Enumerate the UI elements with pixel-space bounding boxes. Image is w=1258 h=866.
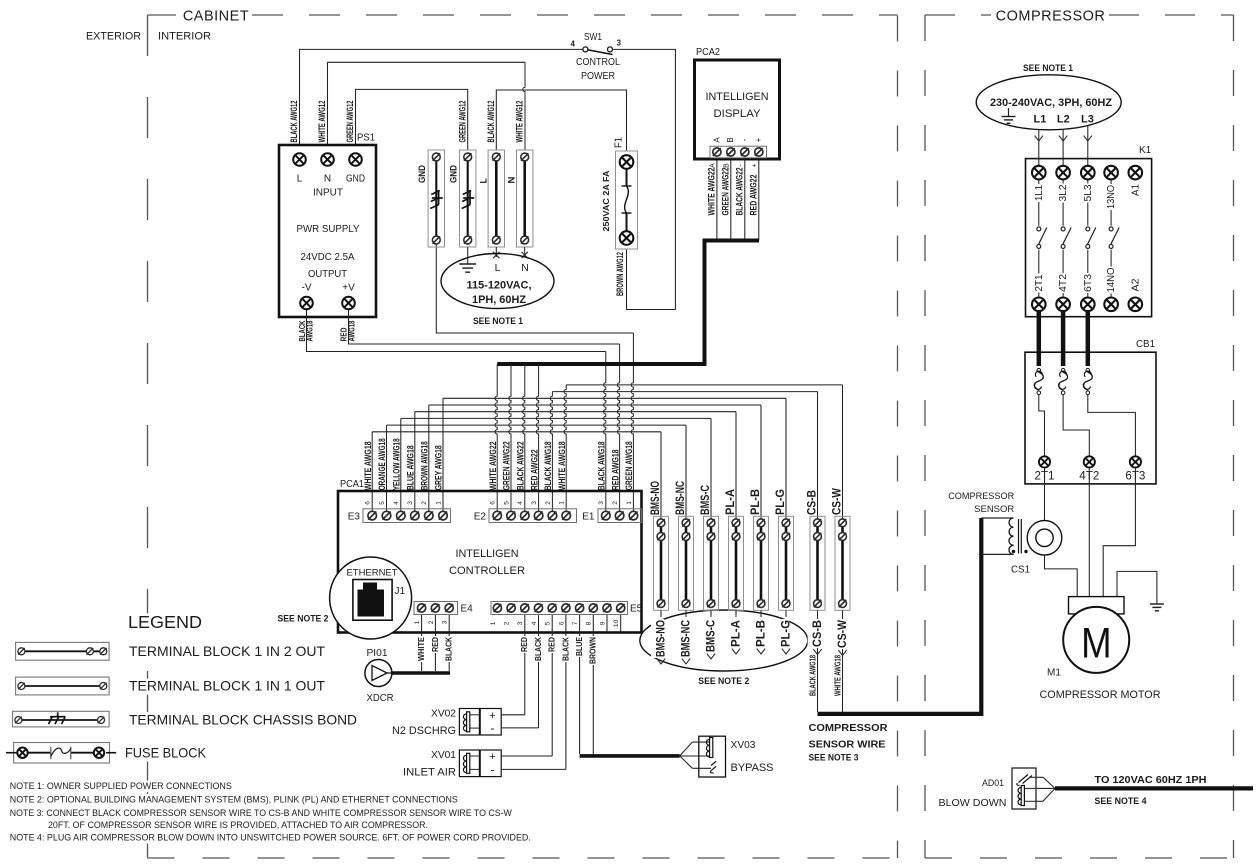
label PL-B above <box>750 489 762 515</box>
svg-text:BMS-NC: BMS-NC <box>680 620 692 657</box>
terminal strip E2 <box>489 509 577 523</box>
svg-text:BLACK: BLACK <box>445 637 454 661</box>
label BMS-NC above <box>675 481 687 515</box>
ground symbol under GND2 <box>459 264 476 272</box>
svg-text:E3: E3 <box>348 512 361 523</box>
wire label BLACK AWG18 at PS1 -V <box>298 320 307 341</box>
terminal 2T1 of K1 <box>1032 298 1046 312</box>
svg-text:B: B <box>723 163 730 168</box>
svg-text:GND: GND <box>448 165 458 183</box>
terminal 6T3 of CB1 <box>1130 456 1141 467</box>
svg-text:SEE NOTE 2: SEE NOTE 2 <box>698 676 749 687</box>
wire element 2 to terminal 4T2 of CB1 <box>1063 395 1089 457</box>
legend terminal block 1 in 2 out <box>16 642 110 660</box>
svg-text:GREY AWG18: GREY AWG18 <box>434 445 444 490</box>
wire harness row E3-5 to BMS-NC (ORANGE AWG18) <box>387 424 687 426</box>
pin labels A B - + of PCA2 <box>712 137 721 143</box>
svg-text:BLACK AWG22: BLACK AWG22 <box>734 168 744 216</box>
svg-text:SEE NOTE 4: SEE NOTE 4 <box>1095 796 1148 807</box>
svg-text:-V: -V <box>302 283 312 294</box>
svg-text:TERMINAL BLOCK 1 IN 1 OUT: TERMINAL BLOCK 1 IN 1 OUT <box>129 679 326 694</box>
wire harness row E3-6 to BMS-NO (WHITE AWG18) <box>372 431 661 433</box>
svg-text:BLACK AWG22: BLACK AWG22 <box>516 441 526 490</box>
svg-text:CONTROLLER: CONTROLLER <box>449 565 525 577</box>
wire L2 to K1 3L2 <box>1062 130 1064 166</box>
svg-text:WHITE AWG22: WHITE AWG22 <box>488 441 498 490</box>
stubs E5-9 E5-10 <box>606 615 608 632</box>
controller PCA1 <box>338 491 642 633</box>
svg-text:LEGEND: LEGEND <box>128 612 202 632</box>
svg-text:L2: L2 <box>1057 114 1070 126</box>
terminal block BMS-C <box>704 516 719 610</box>
svg-text:XV03: XV03 <box>731 740 756 751</box>
svg-text:BMS-C: BMS-C <box>700 485 712 515</box>
svg-text:SEE NOTE 2: SEE NOTE 2 <box>278 614 329 625</box>
svg-text:8: 8 <box>586 621 593 625</box>
power cord AD01 (thick) <box>1055 786 1253 790</box>
svg-text:BROWN AWG18: BROWN AWG18 <box>420 441 430 490</box>
wire label BROWN AWG12 <box>615 252 625 296</box>
ground symbol in ellipse <box>1008 108 1010 117</box>
svg-text:NOTE 3: CONNECT BLACK COMPRESS: NOTE 3: CONNECT BLACK COMPRESSOR SENSOR … <box>10 807 512 818</box>
terminal strip E3 <box>363 509 451 523</box>
wire L1 to K1 1L1 <box>1038 130 1040 166</box>
svg-text:E5: E5 <box>630 604 643 615</box>
wire label GREEN AWG22 <box>720 168 730 216</box>
terminal block GND2 chassis bond <box>460 150 476 247</box>
wire K1 2T1 to CB1 (thick) <box>1037 311 1042 366</box>
svg-text:COMPRESSOR MOTOR: COMPRESSOR MOTOR <box>1040 689 1161 701</box>
svg-text:PCA1: PCA1 <box>340 479 364 490</box>
wire E1-1 vertical with hops (GREEN AWG18) <box>631 333 633 516</box>
svg-text:2: 2 <box>545 501 552 505</box>
transducer cable PI01 (thick) <box>392 671 450 675</box>
terminal strip of PCA2 <box>710 146 767 158</box>
svg-text:BMS-C: BMS-C <box>705 620 717 652</box>
svg-text:SENSOR WIRE: SENSOR WIRE <box>809 739 886 751</box>
label PL-G above <box>775 489 787 515</box>
svg-text:XDCR: XDCR <box>367 693 394 704</box>
svg-text:+: + <box>754 137 763 142</box>
terminal block N <box>517 150 533 247</box>
label CS-W below <box>833 619 849 649</box>
wire labels at E3 <box>363 441 373 490</box>
wire label BLACK AWG18 at CS-B <box>809 655 818 696</box>
svg-text:BROWN: BROWN <box>589 637 598 664</box>
wires E5-3..8 down <box>524 615 526 716</box>
svg-text:BLACK AWG12: BLACK AWG12 <box>486 101 496 143</box>
svg-text:SENSOR: SENSOR <box>974 504 1014 514</box>
pin label A2 <box>1126 278 1141 293</box>
svg-text:BLACK AWG18: BLACK AWG18 <box>809 655 818 696</box>
wire L3 to K1 5L3 <box>1087 126 1089 166</box>
terminal A2 of K1 <box>1129 298 1143 312</box>
svg-text:INTERIOR: INTERIOR <box>158 31 211 43</box>
svg-text:PCA2: PCA2 <box>696 47 720 58</box>
svg-text:6: 6 <box>558 621 565 625</box>
svg-text:WHITE AWG18: WHITE AWG18 <box>557 441 567 490</box>
svg-text:PS1: PS1 <box>357 133 375 144</box>
wire GND1 to E1-1 (GREEN AWG18) <box>436 244 633 333</box>
wire E3-6 vertical <box>371 432 373 516</box>
wire harness row E2-1 to CS-W (WHITE AWG18) <box>566 384 842 386</box>
svg-text:M1: M1 <box>1047 668 1061 679</box>
svg-text:RED: RED <box>520 637 529 652</box>
svg-text:RED AWG18: RED AWG18 <box>610 449 620 490</box>
svg-text:1: 1 <box>414 620 421 624</box>
svg-text:L: L <box>297 174 303 185</box>
pin numbers E5 <box>490 621 497 625</box>
wire K1 4T2 to CB1 (thick) <box>1061 311 1066 366</box>
wire bus to E2-6 (WHITE AWG22) <box>495 364 497 516</box>
svg-text:CABINET: CABINET <box>183 9 249 25</box>
wire XV02 - to E5-4 <box>501 727 538 729</box>
legend terminal block 1 in 1 out <box>16 677 110 695</box>
terminal block BMS-NO <box>654 516 669 610</box>
compressor sensor cable (thick) <box>818 518 982 714</box>
svg-text:FUSE BLOCK: FUSE BLOCK <box>125 746 207 761</box>
svg-text:GREEN AWG12: GREEN AWG12 <box>345 101 355 143</box>
svg-text:INLET AIR: INLET AIR <box>403 767 456 779</box>
svg-text:J1: J1 <box>395 586 406 597</box>
svg-text:BMS-NO: BMS-NO <box>655 620 667 657</box>
terminal block PL-G <box>779 516 794 610</box>
pin numbers E1 <box>598 501 605 505</box>
terminal 14NO of K1 <box>1104 298 1118 312</box>
svg-text:CONTROL: CONTROL <box>576 57 620 68</box>
svg-text:CB1: CB1 <box>1136 339 1155 350</box>
wire label BLACK AWG12 <box>289 101 299 143</box>
svg-text:COMPRESSOR: COMPRESSOR <box>948 491 1014 501</box>
wire motor ground <box>1117 571 1157 603</box>
terminal block CS-B <box>810 516 825 610</box>
display PCA2 <box>695 60 780 159</box>
svg-text:M: M <box>1081 620 1111 667</box>
wire harness row E2-2 to CS-B (BLACK AWG18) <box>552 391 817 393</box>
pin label 14NO <box>1102 267 1117 294</box>
svg-text:CS-B: CS-B <box>806 490 818 515</box>
note 3 <box>9 808 513 819</box>
ground symbol at motor <box>1150 604 1164 611</box>
svg-text:POWER: POWER <box>581 71 615 82</box>
pin label 1L1 <box>1030 184 1045 202</box>
pin label 6T3 <box>1079 273 1094 293</box>
pin label 3L2 <box>1054 184 1069 203</box>
svg-text:AD01: AD01 <box>982 778 1004 788</box>
svg-text:AWG18: AWG18 <box>347 320 356 341</box>
svg-text:3: 3 <box>531 501 538 505</box>
svg-text:ETHERNET: ETHERNET <box>347 568 398 579</box>
svg-text:SEE NOTE 1: SEE NOTE 1 <box>1023 63 1074 74</box>
svg-text:PI01: PI01 <box>367 648 388 659</box>
svg-text:A: A <box>712 137 721 143</box>
label BMS-NO below with arrow <box>660 610 662 617</box>
svg-text:CS-W: CS-W <box>837 620 849 648</box>
wire label GREEN AWG12 <box>345 101 355 143</box>
svg-text:RED: RED <box>548 637 557 652</box>
terminal 13NO of K1 <box>1104 166 1118 180</box>
svg-text:10: 10 <box>613 620 620 628</box>
ethernet jack J1 <box>330 557 412 639</box>
svg-text:N: N <box>506 177 516 184</box>
terminal 3L2 of K1 <box>1056 166 1070 180</box>
wire PS1 N to N terminal block (WHITE AWG12) <box>328 62 526 153</box>
svg-text:WHITE AWG18: WHITE AWG18 <box>834 655 843 696</box>
svg-text:PL-B: PL-B <box>755 620 767 647</box>
wire labels at E1 <box>597 441 607 490</box>
wire CS-W to sensor cable (WHITE AWG18) <box>842 610 844 712</box>
contact pole 1L1-2T1 <box>1038 179 1040 225</box>
wire bus to E2-4 (BLACK AWG22) <box>523 364 525 516</box>
svg-text:BLACK: BLACK <box>561 637 570 661</box>
contact pole 5L3-6T3 <box>1087 179 1089 225</box>
svg-text:3L2: 3L2 <box>1057 184 1069 201</box>
svg-text:XV02: XV02 <box>431 709 456 720</box>
svg-text:6T3: 6T3 <box>1082 274 1094 292</box>
wire element 1 to terminal 2T1 of CB1 <box>1039 395 1045 457</box>
wire E2-2 vertical (BLACK AWG18) <box>550 392 552 516</box>
svg-text:WHITE AWG12: WHITE AWG12 <box>317 101 327 143</box>
terminal strip E5 <box>491 602 628 615</box>
svg-text:N: N <box>324 174 331 185</box>
wire CS-B to sensor cable (BLACK AWG18) <box>817 610 819 712</box>
terminal 1L1 of K1 <box>1032 166 1046 180</box>
connector XV03 <box>680 736 726 777</box>
pin label 5L3 <box>1079 184 1094 203</box>
flare AD01 cable <box>1036 777 1055 801</box>
svg-text:TERMINAL BLOCK CHASSIS BOND: TERMINAL BLOCK CHASSIS BOND <box>129 713 357 728</box>
svg-text:GND: GND <box>346 174 365 185</box>
svg-text:EXTERIOR: EXTERIOR <box>86 31 141 43</box>
label PL-A above <box>725 489 737 515</box>
label PL-A below with arrow <box>735 610 737 617</box>
wire label WHITE AWG12 above N block <box>514 101 524 143</box>
wire label RED AWG22 <box>748 175 758 216</box>
svg-text:BLACK: BLACK <box>534 637 543 661</box>
wire CB1 4T2 to motor <box>1088 468 1090 597</box>
svg-text:2: 2 <box>612 501 619 505</box>
svg-text:7: 7 <box>572 621 579 625</box>
label CS-W above <box>831 488 843 515</box>
wire E1-2 vertical with hops (RED AWG18) <box>617 344 619 516</box>
svg-text:N: N <box>521 262 529 274</box>
svg-text:5: 5 <box>379 501 386 505</box>
svg-text:BLACK AWG18: BLACK AWG18 <box>543 441 553 490</box>
svg-text:L: L <box>478 178 488 184</box>
svg-text:NOTE 2: OPTIONAL BUILDING MANA: NOTE 2: OPTIONAL BUILDING MANAGEMENT SYS… <box>10 794 458 805</box>
cabinet dashed border <box>148 15 898 858</box>
svg-text:WHITE: WHITE <box>417 636 426 661</box>
pin numbers E3 <box>365 501 372 505</box>
svg-text:INPUT: INPUT <box>313 188 343 199</box>
terminal 6T3 of K1 <box>1081 298 1095 312</box>
wire label RED AWG18 at PS1 +V <box>340 327 349 341</box>
wire K1 6T3 to CB1 (thick) <box>1086 311 1091 366</box>
svg-text:TERMINAL BLOCK 1 IN 2 OUT: TERMINAL BLOCK 1 IN 2 OUT <box>129 644 326 659</box>
svg-text:+: + <box>489 751 495 763</box>
svg-text:N2 DSCHRG: N2 DSCHRG <box>392 725 456 737</box>
svg-text:PWR SUPPLY: PWR SUPPLY <box>297 224 360 235</box>
svg-text:COMPRESSOR: COMPRESSOR <box>809 722 888 734</box>
wire CB1 6T3 to motor <box>1103 468 1135 597</box>
svg-text:+: + <box>751 163 758 167</box>
wire E3-2 vertical <box>428 405 430 516</box>
svg-text:GREEN AWG22: GREEN AWG22 <box>720 168 730 216</box>
current transformer CS1 <box>981 518 1061 555</box>
svg-text:WHITE AWG12: WHITE AWG12 <box>514 101 524 143</box>
wire E3-4 vertical <box>400 418 402 515</box>
legend terminal block chassis bond <box>13 711 110 727</box>
wires E4 to transducer cable <box>421 615 423 672</box>
svg-text:4: 4 <box>531 621 538 625</box>
label BMS-NC below with arrow <box>685 610 687 617</box>
svg-text:A1: A1 <box>1129 184 1141 196</box>
svg-text:SW1: SW1 <box>584 32 602 43</box>
fuse block F1 <box>616 151 638 249</box>
svg-text:2: 2 <box>428 620 435 624</box>
svg-text:1PH, 60HZ: 1PH, 60HZ <box>472 294 526 306</box>
svg-text:BLOW DOWN: BLOW DOWN <box>939 797 1007 809</box>
svg-text:XV01: XV01 <box>431 750 456 761</box>
label BMS-NO above <box>650 481 662 515</box>
terminal strip E4 <box>414 602 458 615</box>
pin label 2T1 <box>1030 274 1045 293</box>
connector XV01 <box>459 750 501 777</box>
svg-text:1: 1 <box>559 501 566 505</box>
wire PCA2 terminals to bus (WHITE/GREEN/BLACK/RED AWG22) <box>716 158 718 241</box>
svg-text:5: 5 <box>545 621 552 625</box>
svg-text:YELLOW AWG18: YELLOW AWG18 <box>392 438 402 490</box>
svg-text:F1: F1 <box>613 137 624 148</box>
wire label GREEN AWG12 above GND2 <box>457 101 467 143</box>
svg-text:K1: K1 <box>1139 145 1152 156</box>
pin numbers E2 <box>490 501 497 505</box>
svg-text:1: 1 <box>435 501 442 505</box>
wire PS1 +V to E1-2 (RED AWG18) <box>349 310 620 345</box>
pin label 4T2 <box>1054 273 1069 293</box>
terminal block L <box>488 150 504 247</box>
svg-text:AWG18: AWG18 <box>305 320 314 341</box>
power supply PS1 <box>279 145 376 317</box>
svg-text:13NO: 13NO <box>1105 185 1117 209</box>
svg-text:INTELLIGEN: INTELLIGEN <box>706 91 769 103</box>
contact pole 3L2-4T2 <box>1062 179 1064 225</box>
legend fuse block <box>6 743 116 764</box>
wire XV01 + to E5-5 <box>501 755 552 757</box>
wire harness row E3-2 to PL-B (BROWN AWG18) <box>429 404 761 406</box>
breaker element 1 of CB1 <box>1037 368 1041 372</box>
wire bus to E2-3 (RED AWG22) <box>536 364 538 516</box>
thick cable PCA2 to E2 <box>497 241 759 365</box>
wire PS1 GND to GND2 terminal block (GREEN AWG12) <box>356 89 468 153</box>
svg-text:3: 3 <box>598 501 605 505</box>
svg-text:PL-G: PL-G <box>775 489 787 515</box>
pin letters on wires <box>710 163 717 168</box>
wire label BLACK AWG22 <box>734 168 744 216</box>
svg-text:PL-A: PL-A <box>730 620 742 647</box>
pin numbers E4 <box>414 620 421 624</box>
svg-text:1: 1 <box>490 621 497 625</box>
terminal 4T2 of CB1 <box>1084 456 1095 467</box>
wire bus to E2-5 (GREEN AWG22) <box>509 364 511 516</box>
ellipse 115-120VAC 1PH 60HZ <box>441 254 554 309</box>
terminal 4T2 of K1 <box>1056 298 1070 312</box>
wire XV02 + to E5-3 <box>501 714 525 716</box>
svg-text:-: - <box>740 138 749 141</box>
svg-text:SEE NOTE 3: SEE NOTE 3 <box>809 753 859 764</box>
svg-text:NOTE 1: OWNER SUPPLIED POWER C: NOTE 1: OWNER SUPPLIED POWER CONNECTIONS <box>10 780 232 791</box>
svg-text:WHITE AWG22: WHITE AWG22 <box>707 168 717 216</box>
svg-text:E2: E2 <box>474 512 487 523</box>
label CS-B above <box>806 490 818 515</box>
svg-text:-: - <box>491 721 495 735</box>
wire label BLACK AWG12 above L block <box>486 101 496 143</box>
svg-text:BMS-NO: BMS-NO <box>650 481 662 515</box>
wire E3-5 vertical <box>386 425 388 515</box>
connector AD01 <box>1012 768 1036 809</box>
label BMS-C above <box>700 485 712 515</box>
wire L block to owner L connection <box>495 247 497 257</box>
pin label A1 <box>1126 183 1141 197</box>
svg-text:4: 4 <box>393 501 400 505</box>
svg-text:2T1: 2T1 <box>1033 274 1045 291</box>
terminal block GND1 chassis bond <box>428 150 444 247</box>
wire GND2 to earth ground <box>467 247 469 264</box>
svg-text:3: 3 <box>517 621 524 625</box>
wire E2-1 vertical (WHITE AWG18) <box>564 385 566 516</box>
terminal 5L3 of K1 <box>1081 166 1095 180</box>
svg-text:4: 4 <box>517 501 524 505</box>
label CS-B below <box>808 619 824 648</box>
svg-text:GND: GND <box>417 165 427 183</box>
breaker element 2 of CB1 <box>1061 368 1065 372</box>
wire labels at E2 <box>488 441 498 490</box>
svg-text:250VAC 2A FA: 250VAC 2A FA <box>601 171 611 232</box>
svg-text:GREEN AWG18: GREEN AWG18 <box>624 441 634 490</box>
svg-text:L1: L1 <box>1033 114 1046 126</box>
svg-text:-: - <box>491 763 495 777</box>
note 1 <box>9 781 233 792</box>
svg-text:SEE NOTE 1: SEE NOTE 1 <box>473 316 524 327</box>
svg-text:4T2: 4T2 <box>1057 274 1069 292</box>
svg-text:CS-B: CS-B <box>812 620 824 647</box>
svg-text:6: 6 <box>365 501 372 505</box>
svg-text:BLUE: BLUE <box>575 636 584 656</box>
svg-text:A: A <box>710 163 717 168</box>
svg-text:L3: L3 <box>1081 114 1094 126</box>
note 2 <box>9 794 459 805</box>
ellipse around BMS PL labels <box>640 610 808 671</box>
wire E3-1 vertical <box>442 398 444 515</box>
wire N block to owner N connection <box>524 247 526 257</box>
svg-text:BLACK AWG18: BLACK AWG18 <box>597 441 607 490</box>
svg-text:2: 2 <box>421 501 428 505</box>
svg-text:COMPRESSOR: COMPRESSOR <box>996 9 1106 25</box>
svg-text:3: 3 <box>442 620 449 624</box>
wire L terminal block to fuse F1 (BLACK AWG12) <box>496 90 626 155</box>
svg-text:5: 5 <box>503 501 510 505</box>
svg-text:3: 3 <box>617 39 622 48</box>
label L terminal block <box>478 178 488 184</box>
pin label 13NO <box>1102 184 1117 210</box>
svg-text:DISPLAY: DISPLAY <box>714 108 762 120</box>
svg-text:24VDC 2.5A: 24VDC 2.5A <box>301 252 355 263</box>
terminal block PL-B <box>754 516 769 610</box>
svg-text:115-120VAC,: 115-120VAC, <box>467 280 532 292</box>
wire CB1 2T1 through CT to motor <box>1045 468 1078 597</box>
svg-text:BLUE AWG18: BLUE AWG18 <box>406 445 416 490</box>
svg-text:BLACK AWG12: BLACK AWG12 <box>289 101 299 143</box>
